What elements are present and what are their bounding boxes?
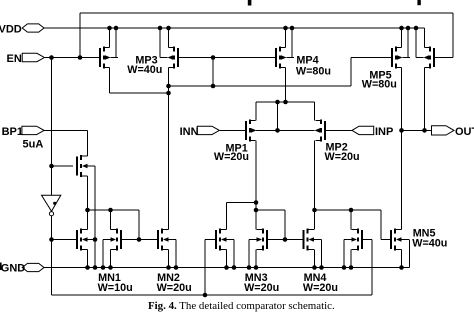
svg-text:Fig. 4. The detailed comparato: Fig. 4. The detailed comparator schemati… bbox=[148, 300, 335, 312]
svg-text:INP: INP bbox=[375, 126, 393, 138]
svg-text:W=20u: W=20u bbox=[325, 151, 360, 163]
svg-text:W=10u: W=10u bbox=[98, 282, 133, 294]
svg-text:GND: GND bbox=[1, 263, 26, 275]
svg-text:W=20u: W=20u bbox=[244, 282, 279, 294]
svg-text:W=80u: W=80u bbox=[362, 78, 397, 90]
svg-text:EN: EN bbox=[7, 53, 22, 65]
svg-text:W=40u: W=40u bbox=[412, 238, 447, 250]
svg-text:W=20u: W=20u bbox=[214, 151, 249, 163]
svg-text:VDD: VDD bbox=[0, 24, 22, 36]
svg-text:W=80u: W=80u bbox=[296, 65, 331, 77]
svg-text:OUT: OUT bbox=[455, 126, 474, 138]
svg-text:W=20u: W=20u bbox=[157, 282, 192, 294]
svg-text:BP1: BP1 bbox=[2, 126, 23, 138]
svg-text:W=40u: W=40u bbox=[127, 64, 162, 76]
svg-text:W=20u: W=20u bbox=[303, 282, 338, 294]
svg-text:INN: INN bbox=[180, 126, 199, 138]
svg-text:5uA: 5uA bbox=[23, 139, 44, 151]
